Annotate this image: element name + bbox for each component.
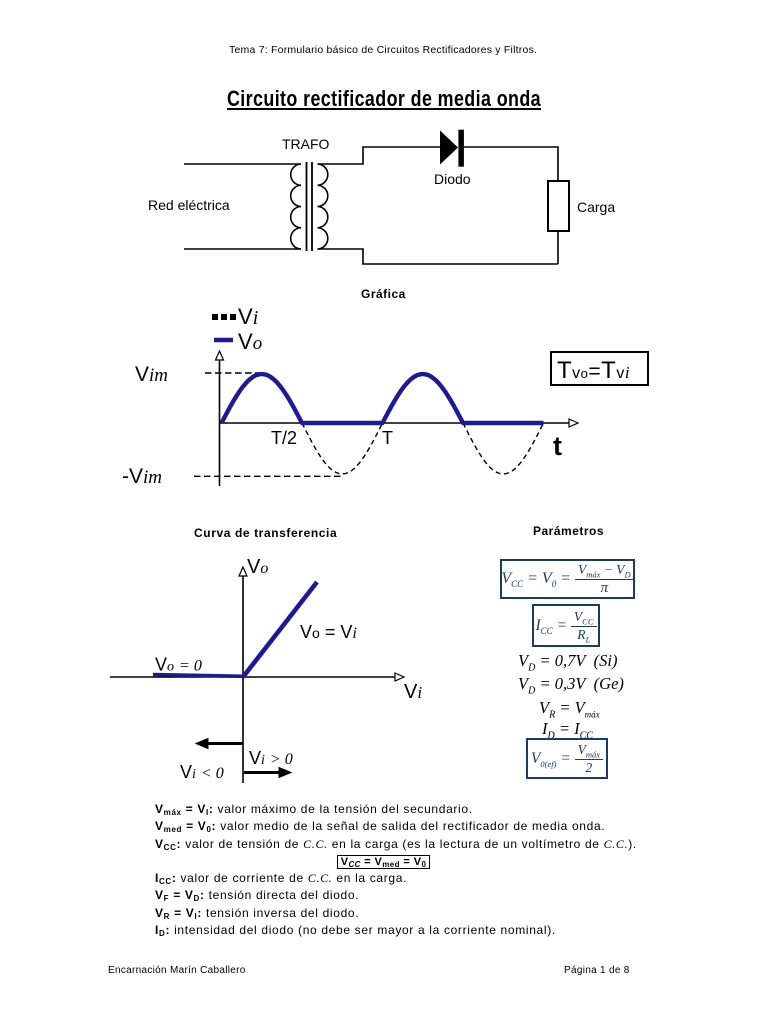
svg-text:Vo = 0: Vo = 0: [155, 655, 202, 675]
diode D1: [440, 130, 464, 167]
transformer secondary coil: [318, 164, 328, 249]
x axis: [220, 422, 573, 424]
formula VD 0,7V: [518, 651, 618, 671]
blue Vo=Vi diagonal: [243, 582, 317, 677]
formula ID: [542, 719, 593, 739]
bottom definitions block: [155, 802, 612, 940]
Curva de transferencia label: [194, 526, 337, 540]
dashed Vim level line: [205, 372, 262, 374]
svg-text:Vi < 0: Vi < 0: [180, 762, 224, 782]
h axis arrowhead: [395, 673, 404, 681]
Grafica label: [361, 287, 406, 301]
x axis arrowhead: [569, 419, 578, 427]
formula box V0ef: [526, 738, 608, 779]
header line: [229, 44, 537, 56]
wire secondary top jog: [318, 147, 441, 164]
formula VD 0,3V: [518, 674, 624, 694]
legend Vi dashes: [212, 314, 236, 320]
wire diode to load: [463, 147, 558, 181]
dashed -Vim level line: [194, 475, 342, 477]
footer right: [564, 965, 630, 976]
Parametros label: [533, 524, 604, 538]
dashed Vi negative hump 1: [302, 423, 383, 474]
Tvo=Tvi box: [551, 352, 648, 385]
resistor Carga box: [548, 181, 569, 231]
wire primary bottom: [184, 248, 301, 250]
transformer core: [306, 162, 308, 251]
wire primary top: [184, 163, 301, 165]
svg-text:Vo: Vo: [247, 556, 268, 578]
svg-text:Vi: Vi: [404, 681, 422, 703]
transformer primary coil: [291, 164, 301, 249]
thick arrow right: [244, 768, 291, 778]
v axis: [242, 573, 244, 783]
thick arrow left: [196, 739, 243, 749]
h axis: [110, 676, 398, 678]
svg-text:Vi > 0: Vi > 0: [249, 748, 293, 768]
solid Vo waveform: [222, 374, 544, 423]
formula box Vcc: [500, 559, 635, 599]
y axis: [219, 357, 221, 486]
footer left: [108, 965, 246, 976]
blue Vo=0 segment: [153, 675, 244, 677]
wire load bottom: [557, 231, 559, 264]
svg-text:Vo = Vi: Vo = Vi: [300, 622, 357, 642]
legend Vo dash: [214, 338, 233, 343]
wire secondary bottom jog: [318, 249, 559, 264]
formula VR: [539, 698, 600, 718]
title: [227, 86, 541, 112]
y axis arrowhead: [216, 351, 224, 360]
dashed Vi negative hump 2: [463, 423, 544, 474]
v axis arrowhead: [239, 567, 247, 576]
formula box Icc: [532, 604, 600, 647]
